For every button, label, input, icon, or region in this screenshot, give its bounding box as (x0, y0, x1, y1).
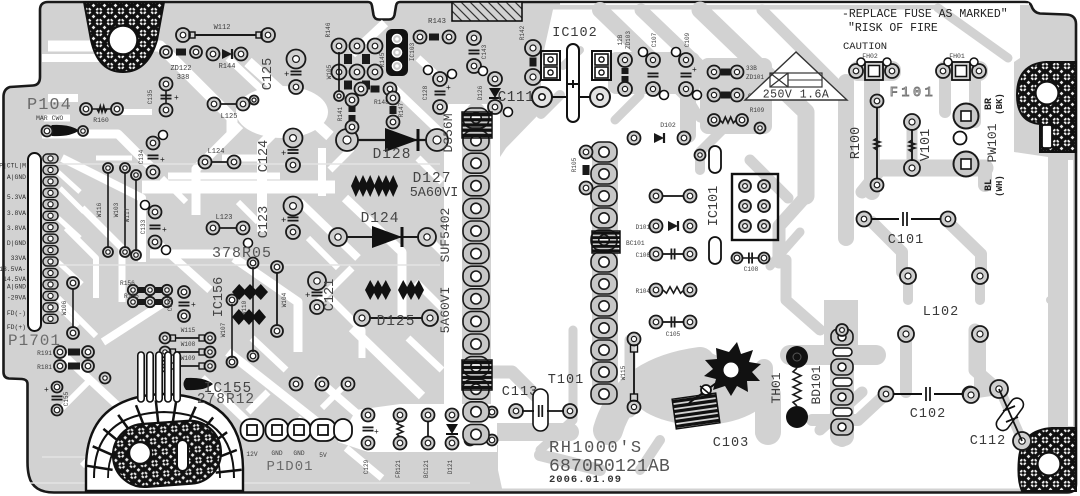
resistor R191 (54, 346, 66, 358)
svg-text:(BK): (BK) (995, 93, 1005, 115)
svg-text:C108: C108 (744, 266, 759, 273)
resistor R181 (54, 360, 66, 372)
inductor L123 (207, 222, 220, 235)
svg-text:D125: D125 (377, 314, 416, 330)
capacitor C143 (467, 31, 481, 45)
svg-text:12B: 12B (617, 34, 624, 45)
svg-text:P1D01: P1D01 (266, 459, 313, 475)
thermistor TH01 (786, 346, 808, 368)
svg-text:D121: D121 (447, 459, 454, 474)
svg-text:R100: R100 (849, 127, 864, 159)
svg-text:BC101: BC101 (626, 240, 645, 247)
wire W107 (227, 295, 238, 306)
svg-text:+: + (44, 386, 49, 395)
svg-text:L124: L124 (208, 148, 225, 156)
capacitor C103 star body (704, 342, 761, 396)
svg-text:W109: W109 (181, 355, 196, 362)
capacitor C107 (646, 53, 660, 67)
svg-text:+: + (281, 149, 286, 159)
IC101 capsules (709, 146, 721, 173)
svg-text:3.8VA: 3.8VA (7, 210, 26, 217)
svg-text:C134: C134 (138, 149, 145, 164)
resistor R160 (80, 103, 92, 115)
svg-text:338: 338 (177, 74, 190, 82)
svg-text:FD(+): FD(+) (7, 324, 26, 331)
IC155 capsule bars (138, 352, 180, 402)
gray trace network on copper-free area (476, 8, 1062, 470)
inductor L124 (199, 156, 212, 169)
svg-text:C105: C105 (666, 331, 681, 338)
wire W109 (160, 361, 171, 372)
resistor R105 (580, 146, 593, 159)
white hairline under top edge (560, 3, 1029, 5)
wire W108 (160, 347, 171, 358)
IC101 outline (732, 174, 778, 240)
capacitor C101 (857, 212, 872, 227)
svg-text:V101: V101 (919, 129, 934, 161)
pad column mid (591, 142, 617, 162)
svg-text:L123: L123 (216, 214, 233, 222)
svg-text:R147: R147 (398, 102, 405, 117)
svg-text:R155: R155 (124, 293, 139, 300)
capacitor C121 (308, 272, 326, 290)
capacitor C102 (879, 387, 894, 402)
svg-text:+: + (281, 216, 286, 226)
svg-text:-REPLACE FUSE AS MARKED": -REPLACE FUSE AS MARKED" (842, 8, 1008, 21)
svg-text:ZD103: ZD103 (625, 31, 632, 49)
svg-text:A|GND: A|GND (7, 284, 26, 291)
zener ZD103 (618, 53, 632, 67)
white streak P104 (44, 115, 70, 122)
slot right-upper (1042, 125, 1052, 148)
diode body fins lower (462, 360, 492, 390)
svg-text:ZD101: ZD101 (746, 74, 764, 81)
svg-text:L102: L102 (923, 305, 959, 320)
svg-text:R191: R191 (37, 350, 52, 357)
svg-text:C155: C155 (63, 391, 70, 406)
svg-text:3.8VA: 3.8VA (7, 225, 26, 232)
svg-text:CAUTION: CAUTION (843, 41, 887, 53)
svg-text:SUF5402: SUF5402 (438, 208, 453, 263)
svg-text:MAR CWO: MAR CWO (36, 115, 63, 122)
inductor L125 (208, 98, 221, 111)
svg-text:D127: D127 (413, 171, 452, 187)
resistor grid R146/R145 (332, 39, 347, 54)
svg-text:+: + (374, 428, 379, 437)
capacitor C108 (732, 253, 743, 264)
svg-text:+: + (160, 156, 165, 165)
diode D128 (336, 129, 358, 151)
svg-text:33B: 33B (746, 65, 757, 72)
svg-text:F101: F101 (890, 86, 936, 101)
inductor L102 (900, 268, 916, 284)
svg-text:14.5VA: 14.5VA (3, 276, 26, 283)
svg-text:+: + (284, 70, 289, 80)
IC103 (386, 29, 408, 76)
svg-text:C124: C124 (257, 140, 272, 172)
svg-text:5A60VI: 5A60VI (438, 287, 453, 334)
svg-text:C111: C111 (498, 90, 535, 106)
wire W115 (160, 333, 171, 344)
diode column D121 (446, 409, 459, 422)
svg-text:C125: C125 (261, 58, 276, 90)
svg-text:A|GND: A|GND (7, 174, 26, 181)
svg-text:+: + (692, 66, 697, 75)
svg-text:C107: C107 (651, 32, 658, 47)
svg-text:W105: W105 (326, 64, 333, 79)
svg-text:FD(-): FD(-) (7, 310, 26, 317)
svg-text:C135: C135 (147, 89, 154, 104)
white river near P1D01 (338, 404, 497, 452)
wire W104 (271, 261, 283, 273)
svg-text:W115: W115 (620, 365, 627, 380)
transformer mounting dome bottom-left (86, 394, 243, 491)
svg-text:D124: D124 (361, 211, 400, 227)
resistor R142 (525, 40, 541, 56)
wire W115b (628, 333, 641, 346)
connector header dual (541, 51, 560, 80)
resistor R147 (387, 92, 400, 105)
svg-text:+: + (162, 226, 167, 235)
svg-text:W112: W112 (214, 24, 231, 32)
IC101 pads (739, 180, 751, 192)
IC156 inductor bodies (232, 284, 268, 300)
small pads pair (250, 96, 259, 105)
connector header dual right (592, 51, 611, 80)
white channel in right edge strip (1068, 160, 1073, 426)
svg-text:W108: W108 (181, 341, 196, 348)
svg-text:W116: W116 (96, 202, 103, 217)
svg-text:33VA: 33VA (11, 255, 27, 262)
svg-text:D101: D101 (636, 224, 651, 231)
svg-text:W117: W117 (124, 207, 131, 222)
svg-text:GND: GND (271, 450, 282, 457)
diode D125 bodies (365, 280, 391, 300)
svg-text:BL: BL (984, 179, 995, 191)
svg-text:5.3VA: 5.3VA (7, 194, 26, 201)
svg-text:+: + (446, 84, 451, 93)
svg-text:R104: R104 (636, 288, 651, 295)
R104 (650, 284, 663, 297)
svg-text:+: + (305, 291, 310, 301)
svg-text:C143: C143 (481, 44, 488, 59)
svg-text:C109: C109 (684, 32, 691, 47)
transistor column FR121 (394, 409, 407, 422)
svg-text:RH1000'S: RH1000'S (549, 439, 643, 458)
svg-text:R143: R143 (428, 18, 447, 26)
C106 (650, 248, 663, 261)
diode D127 body (351, 175, 375, 197)
svg-text:C156: C156 (167, 296, 174, 311)
svg-text:2006.01.09: 2006.01.09 (549, 474, 622, 486)
diode D124 (329, 228, 347, 246)
diode D126 (488, 72, 502, 86)
mounting keepout hatch right-upper (1017, 62, 1076, 152)
transistor column C129 (362, 409, 375, 422)
resistor R109 (708, 114, 720, 126)
diode D160 teardrop (49, 125, 79, 136)
svg-text:250V 1.6A: 250V 1.6A (763, 89, 830, 102)
svg-text:BD101: BD101 (809, 365, 824, 404)
resistor R143 (414, 31, 427, 44)
svg-text:L125: L125 (221, 113, 238, 121)
IC155 teardrop (184, 378, 214, 390)
connector P1D01 sockets (241, 419, 264, 441)
capacitor C124 (284, 129, 303, 148)
svg-text:378R05: 378R05 (212, 245, 272, 262)
svg-text:P104: P104 (27, 96, 72, 115)
capacitor C125 (287, 50, 306, 69)
diode body D356M (462, 112, 492, 138)
capacitor C112 (963, 387, 979, 403)
svg-text:FR121: FR121 (395, 460, 402, 478)
capacitor C128b (433, 72, 447, 86)
connector P1701 pin labels (0, 163, 26, 332)
mounting hole right-upper (1036, 82, 1059, 105)
svg-text:D|GND: D|GND (7, 240, 26, 247)
svg-text:(WH): (WH) (995, 175, 1005, 197)
svg-text:W104: W104 (281, 292, 288, 307)
pads row above P1D01 (290, 378, 303, 391)
svg-text:IC101: IC101 (707, 186, 722, 227)
svg-text:12V: 12V (246, 451, 257, 458)
svg-text:5V: 5V (319, 452, 327, 459)
svg-text:IC103: IC103 (409, 42, 416, 61)
svg-text:C103: C103 (713, 436, 749, 451)
resistor R141 (346, 94, 359, 107)
dome slot (177, 440, 188, 471)
copper-free channel for diode column (444, 104, 500, 446)
diode column SUF5402 pads (463, 108, 489, 128)
svg-text:C123: C123 (257, 206, 272, 238)
white pocket around C125 (236, 86, 328, 138)
open pads small circles (424, 66, 433, 75)
svg-text:C133: C133 (140, 219, 147, 234)
svg-text:W115: W115 (181, 327, 196, 334)
capacitor C133 (149, 206, 162, 219)
transistor BC101 body (592, 231, 620, 253)
svg-text:D128: D128 (373, 147, 412, 163)
svg-text:C112: C112 (970, 434, 1006, 449)
diode R144 (207, 48, 220, 61)
svg-text:R156: R156 (120, 280, 135, 287)
svg-text:R141: R141 (337, 106, 344, 121)
svg-text:W106: W106 (61, 300, 68, 315)
diode D102 (628, 132, 641, 145)
transistor pads trio mid (650, 190, 663, 203)
white trace network on copper pour (42, 23, 464, 478)
svg-text:D356M: D356M (441, 113, 456, 152)
svg-text:TH01: TH01 (769, 372, 784, 403)
warning triangle 250V 1.6A (745, 52, 847, 100)
svg-text:ZD122: ZD122 (170, 65, 191, 73)
varistor V101 (904, 114, 920, 130)
capacitor C103 finned body (672, 393, 720, 429)
mounting hole top-left (109, 26, 138, 55)
mounting keepout hatch top-left (84, 2, 164, 72)
mounting hole bottom-right (1038, 453, 1061, 476)
svg-text:R144: R144 (219, 63, 236, 71)
resistor pair top (160, 46, 172, 58)
wire W116 (103, 163, 113, 173)
capacitor C135 (160, 78, 173, 91)
resistor R100 (871, 95, 884, 108)
dome hole (129, 442, 151, 464)
svg-text:R145: R145 (379, 52, 386, 67)
mounting keepout hatch bottom-right (1018, 428, 1076, 491)
capacitor C109 (679, 53, 693, 67)
capacitor C123 (284, 197, 303, 216)
svg-text:R105: R105 (571, 157, 578, 172)
resistor R148 row (355, 83, 368, 96)
keepout striped rect top-center (452, 2, 522, 21)
wire W110 (248, 258, 259, 269)
wire W112 (176, 28, 190, 42)
svg-text:-29VA: -29VA (7, 295, 26, 302)
D101 (650, 220, 663, 233)
wire W117 (131, 170, 141, 180)
transistor column BC121 (422, 409, 435, 422)
svg-text:D126: D126 (477, 85, 484, 100)
pads bottom right of P1D01 (465, 407, 476, 418)
svg-text:C129: C129 (363, 459, 370, 474)
svg-text:BR: BR (984, 98, 995, 110)
svg-text:"RISK OF FIRE: "RISK OF FIRE (848, 22, 938, 35)
diode D125 (354, 310, 370, 326)
svg-text:R109: R109 (750, 107, 765, 114)
C105 (650, 316, 663, 329)
svg-text:5A60VI: 5A60VI (410, 186, 459, 201)
capacitor C155 (52, 382, 63, 393)
svg-text:P|CTL|M: P|CTL|M (0, 163, 26, 170)
svg-text:PW101: PW101 (985, 123, 1000, 162)
svg-text:C102: C102 (910, 407, 946, 422)
svg-text:R181: R181 (37, 364, 52, 371)
IC102 capsule (567, 44, 579, 122)
svg-text:13.5VA-: 13.5VA- (0, 266, 26, 273)
wire W103 (120, 163, 130, 173)
svg-text:D102: D102 (660, 122, 676, 129)
svg-text:GND: GND (293, 450, 304, 457)
connector P1701 pads (43, 154, 58, 323)
wire W105 (338, 52, 340, 92)
svg-text:W103: W103 (113, 202, 120, 217)
svg-text:R146: R146 (325, 22, 332, 37)
ZD101 cluster (708, 66, 721, 79)
capacitor C156 (178, 286, 190, 298)
svg-text:+: + (191, 301, 196, 310)
svg-text:IC156: IC156 (212, 277, 227, 318)
svg-text:C128: C128 (422, 85, 429, 100)
connector P1701 slot (28, 153, 41, 331)
svg-text:P1701: P1701 (8, 332, 61, 350)
wire W106 (67, 277, 79, 289)
capacitor C134 (147, 137, 160, 150)
svg-text:C121: C121 (323, 279, 338, 311)
svg-text:R160: R160 (93, 117, 109, 124)
svg-text:278R12: 278R12 (197, 392, 255, 408)
resistor R156 network (128, 285, 138, 295)
svg-text:R142: R142 (519, 25, 526, 40)
copper-free white region right side (479, 5, 1048, 489)
svg-text:T101: T101 (548, 373, 584, 388)
svg-text:C106: C106 (636, 252, 651, 259)
svg-text:IC102: IC102 (552, 26, 598, 41)
connector PW101 pads (954, 104, 979, 129)
svg-text:C101: C101 (888, 233, 924, 248)
svg-text:BC121: BC121 (423, 460, 430, 478)
svg-text:+: + (174, 94, 179, 103)
svg-text:W107: W107 (220, 322, 227, 337)
